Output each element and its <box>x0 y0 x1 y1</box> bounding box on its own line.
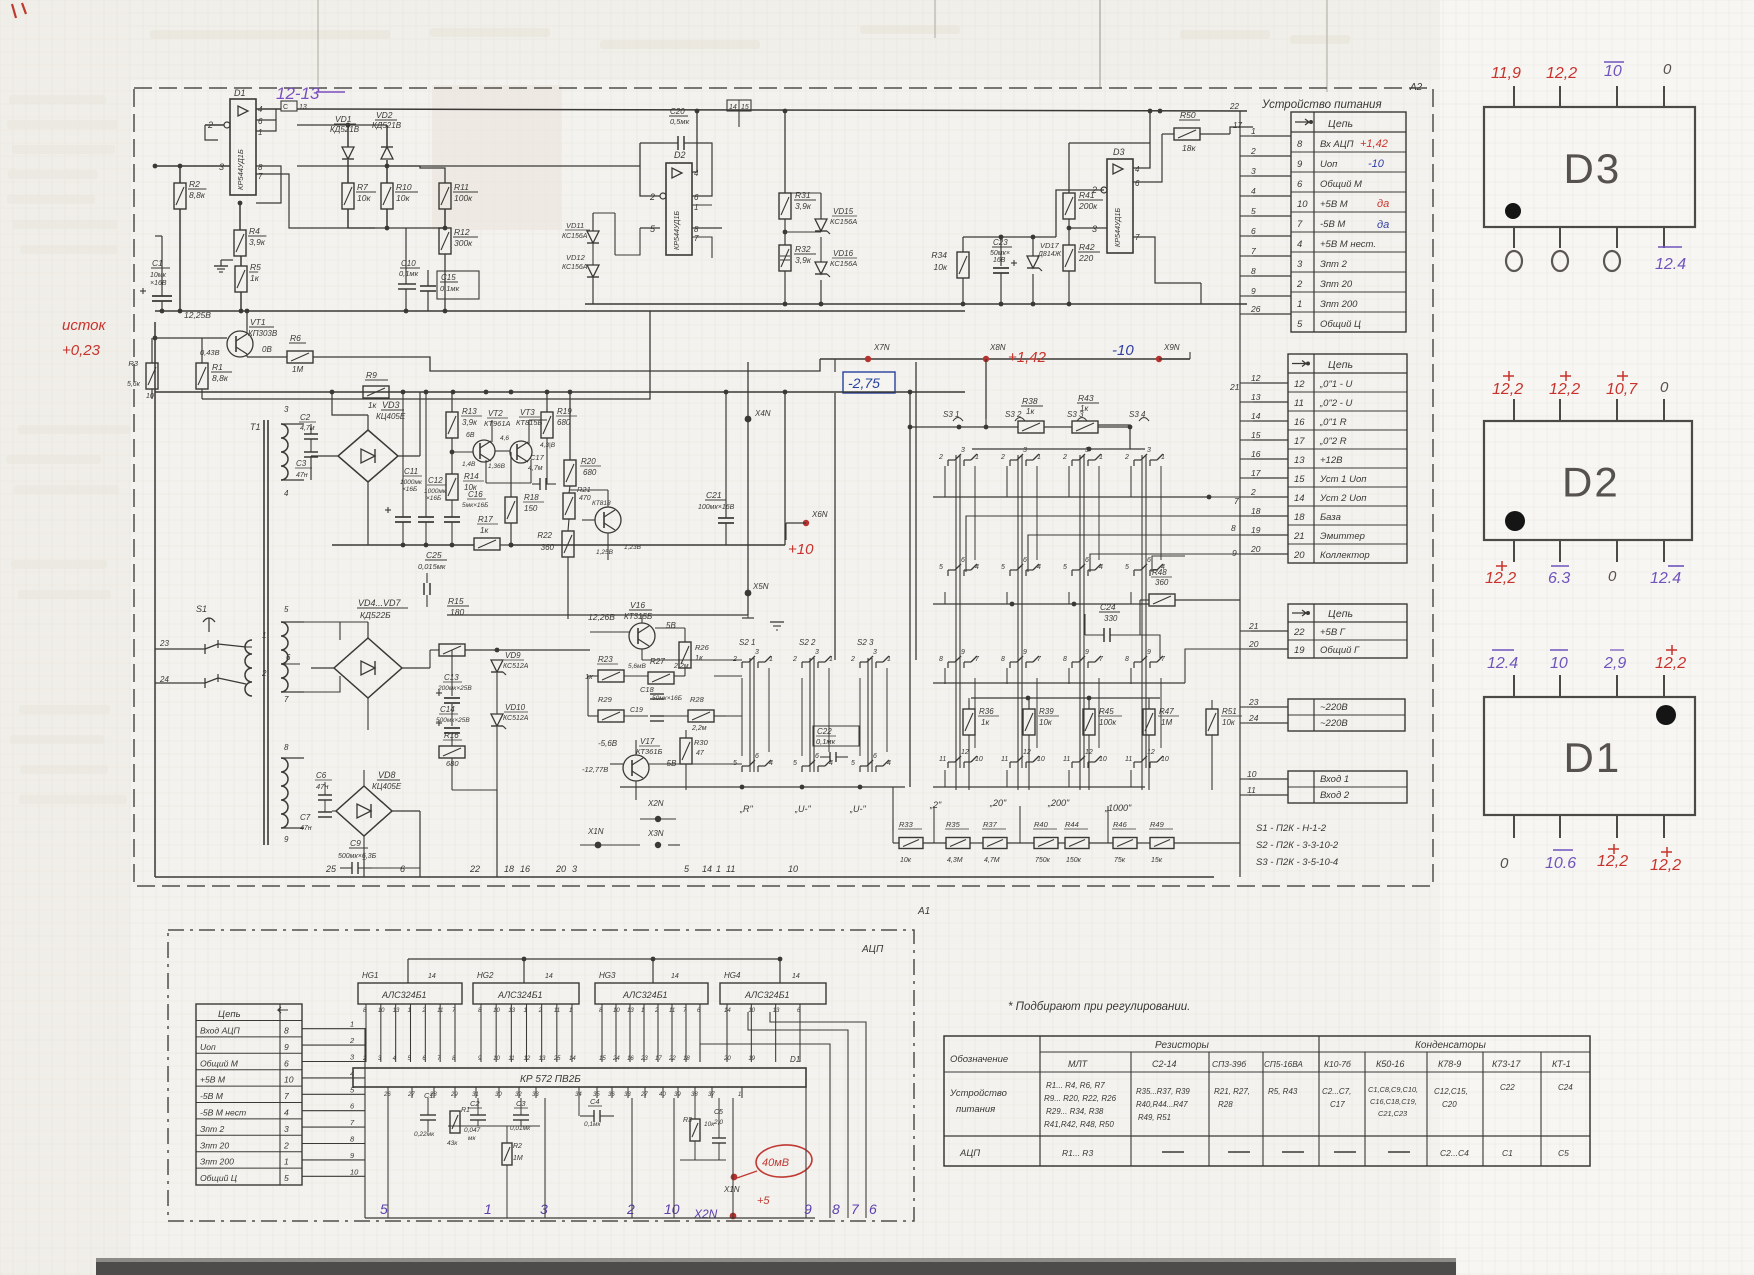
svg-text:HG2: HG2 <box>477 971 494 980</box>
display HG4 ALS324B1 <box>720 983 826 1004</box>
svg-text:VD2: VD2 <box>376 110 393 120</box>
svg-text:R28: R28 <box>1218 1100 1233 1109</box>
component table <box>944 1036 1590 1166</box>
svg-text:2,2м: 2,2м <box>691 725 707 732</box>
svg-text:12-13: 12-13 <box>276 84 320 103</box>
zener VD17 D814 <box>1027 256 1039 268</box>
T1 winding W2 <box>281 622 288 692</box>
resistor R17 1k <box>474 538 500 550</box>
svg-text:Зпт 20: Зпт 20 <box>200 1140 229 1150</box>
svg-text:5,6к: 5,6к <box>127 381 141 388</box>
svg-text:VD10: VD10 <box>505 703 526 712</box>
svg-text:X6N: X6N <box>811 510 828 519</box>
wire stub 18 <box>1253 515 1288 517</box>
svg-text:24: 24 <box>159 675 169 684</box>
svg-text:5: 5 <box>793 760 797 767</box>
svg-text:C19: C19 <box>630 707 643 714</box>
IC box D1 <box>1484 697 1695 815</box>
svg-text:3,9к: 3,9к <box>795 255 812 265</box>
wire S3 row4 bottom bus <box>933 786 1145 788</box>
svg-text:17: 17 <box>1251 468 1261 478</box>
svg-text:3: 3 <box>572 864 577 874</box>
ground near X5N <box>770 621 784 623</box>
svg-text:Устройство: Устройство <box>949 1088 1007 1099</box>
svg-text:C22: C22 <box>817 727 832 736</box>
wire D1 pins 6-1 <box>256 120 276 131</box>
op-amp D1 KR544UD1B <box>230 99 256 195</box>
svg-text:7: 7 <box>694 234 699 243</box>
svg-text:R7: R7 <box>357 182 368 192</box>
svg-text:R35: R35 <box>946 820 961 829</box>
svg-text:23: 23 <box>1248 697 1259 707</box>
svg-text:„U-": „U-" <box>794 804 811 814</box>
svg-text:КР 572 ПВ2Б: КР 572 ПВ2Б <box>520 1074 581 1085</box>
svg-text:C7: C7 <box>300 813 311 822</box>
wire R34 C23 VD17 cluster <box>962 237 964 252</box>
svg-text:3: 3 <box>1297 259 1303 270</box>
svg-text:14: 14 <box>702 864 712 874</box>
svg-text:4,3|В: 4,3|В <box>540 442 556 449</box>
svg-text:КЦ405Е: КЦ405Е <box>372 782 402 791</box>
svg-text:X5N: X5N <box>752 582 769 591</box>
svg-text:C15: C15 <box>441 273 456 282</box>
svg-text:16В: 16В <box>993 257 1006 264</box>
svg-text:-10: -10 <box>1112 342 1134 359</box>
svg-text:11: 11 <box>554 1008 560 1014</box>
rail y392 <box>155 391 965 393</box>
svg-text:8: 8 <box>284 1026 289 1036</box>
resistor R3 5.6k <box>146 363 158 389</box>
resistor R29 1k <box>598 710 624 722</box>
wire diode bottoms <box>347 160 349 183</box>
wire S3.1 contact6 to stub <box>966 516 1240 572</box>
svg-text:5: 5 <box>380 1201 388 1217</box>
svg-text:5: 5 <box>851 760 855 767</box>
resistor R9 1k <box>363 386 389 398</box>
D2 top pins <box>1513 399 1515 421</box>
svg-text:С24: С24 <box>1558 1083 1573 1092</box>
svg-text:47н: 47н <box>300 825 312 832</box>
capacitor C15 0.1mk box <box>437 271 479 299</box>
svg-text:2: 2 <box>1250 146 1256 156</box>
svg-text:R11: R11 <box>454 182 469 192</box>
svg-text:Резисторы: Резисторы <box>1155 1040 1210 1051</box>
svg-text:Зпт 2: Зпт 2 <box>1320 259 1348 270</box>
wire S2 bottom bus <box>620 786 905 788</box>
svg-text:23: 23 <box>640 1056 648 1062</box>
resistor R31 3.9k <box>779 193 791 219</box>
svg-text:-10: -10 <box>1368 158 1385 170</box>
op-amp D2 KR544UD1B <box>666 163 692 255</box>
resistor R51 10k <box>1206 709 1218 735</box>
svg-text:Конденсаторы: Конденсаторы <box>1415 1040 1486 1051</box>
resistor R49 15к <box>1150 838 1174 849</box>
wire bridge2 <box>311 667 334 669</box>
svg-text:7: 7 <box>1297 219 1303 230</box>
svg-text:VD3: VD3 <box>382 400 400 410</box>
svg-text:6: 6 <box>1023 557 1027 564</box>
resistor R39 10k <box>1023 709 1035 735</box>
op-amp D3 KR544UD1B <box>1107 159 1133 253</box>
svg-text:S1: S1 <box>196 604 207 614</box>
svg-text:Зпт 20: Зпт 20 <box>1320 279 1353 290</box>
svg-text:10: 10 <box>613 1008 620 1014</box>
svg-text:R39: R39 <box>1039 707 1054 716</box>
resistor R36 1k <box>963 709 975 735</box>
svg-text:R22: R22 <box>537 531 552 540</box>
svg-text:15: 15 <box>1294 474 1305 485</box>
wire bus above vertical resistors <box>971 697 1160 699</box>
svg-text:10: 10 <box>1099 756 1107 763</box>
svg-text:Д814Ж: Д814Ж <box>1037 251 1062 258</box>
svg-text:R48: R48 <box>1152 568 1167 577</box>
svg-text:12,2: 12,2 <box>1655 655 1686 672</box>
svg-text:R49: R49 <box>1150 820 1165 829</box>
svg-text:4: 4 <box>769 760 773 767</box>
svg-text:D2: D2 <box>1562 459 1620 506</box>
svg-text:R28: R28 <box>690 695 705 704</box>
svg-text:„20": „20" <box>989 798 1007 808</box>
svg-text:8: 8 <box>1063 656 1067 663</box>
rail y545 <box>332 544 474 546</box>
svg-text:680: 680 <box>583 468 597 477</box>
svg-text:3: 3 <box>1147 447 1151 454</box>
wire C9 <box>372 867 420 869</box>
svg-text:1: 1 <box>408 1008 411 1014</box>
svg-text:47: 47 <box>696 750 705 757</box>
A1 stub bus <box>364 1028 366 1218</box>
svg-text:6: 6 <box>400 864 405 874</box>
wire node to D1 pin3 <box>155 165 186 167</box>
svg-text:0,5мк: 0,5мк <box>670 117 690 126</box>
bottom rail <box>155 876 1214 878</box>
wire S3 row1 bottom bus <box>933 496 1209 498</box>
svg-text:9: 9 <box>1232 548 1237 558</box>
svg-text:12,2: 12,2 <box>1546 65 1577 82</box>
wire D3 pin6 <box>1133 134 1162 182</box>
svg-text:Цепь: Цепь <box>1328 608 1353 620</box>
svg-text:8: 8 <box>694 225 699 234</box>
svg-text:9: 9 <box>1023 649 1027 656</box>
resistor R4 3.9k <box>234 230 246 256</box>
svg-text:200мк×25В: 200мк×25В <box>437 685 472 692</box>
verticals to bottom rail <box>363 852 365 877</box>
node X4N <box>745 416 752 423</box>
svg-text:КР544УД1Б: КР544УД1Б <box>672 211 681 250</box>
wire C11 <box>402 392 404 517</box>
svg-text:VD17: VD17 <box>1040 241 1060 250</box>
svg-text:19: 19 <box>1251 525 1261 535</box>
svg-text:12.4: 12.4 <box>1650 570 1681 587</box>
svg-text:C10: C10 <box>401 259 416 268</box>
svg-text:VT1: VT1 <box>250 317 266 327</box>
resistor R2 1M A1 <box>502 1143 512 1165</box>
svg-text:„0"1 R: „0"1 R <box>1319 417 1347 428</box>
svg-text:1к: 1к <box>1026 407 1035 416</box>
svg-text:8: 8 <box>1001 656 1005 663</box>
svg-text:18к: 18к <box>1182 143 1196 153</box>
svg-text:22: 22 <box>668 1056 676 1062</box>
svg-text:R4: R4 <box>249 226 260 236</box>
svg-text:3: 3 <box>961 447 965 454</box>
A1 vertical wires to rail <box>387 1098 389 1218</box>
diode VD12 KS156A <box>587 265 599 277</box>
svg-text:11: 11 <box>1247 785 1256 795</box>
svg-text:16: 16 <box>1294 417 1305 428</box>
wire D3 pin3 <box>1069 227 1107 229</box>
resistor R34 10k <box>957 252 969 278</box>
svg-text:Цепь: Цепь <box>1328 118 1353 130</box>
svg-text:1к: 1к <box>1080 404 1089 413</box>
svg-text:С2-14: С2-14 <box>1152 1059 1177 1069</box>
svg-text:4,6: 4,6 <box>500 435 509 442</box>
svg-text:„2": „2" <box>929 800 942 810</box>
wire stub 21 <box>1251 630 1288 632</box>
svg-text:26: 26 <box>1250 304 1261 314</box>
wire S3 row2 bottom bus <box>933 603 1149 605</box>
wire stub 6 <box>1253 235 1291 237</box>
A1 table stubs <box>302 1028 365 1030</box>
resistor R40 750к <box>1034 838 1058 849</box>
D2 bottom pins <box>1513 540 1515 562</box>
svg-text:7: 7 <box>258 172 263 181</box>
wire VD3 <box>311 455 338 457</box>
svg-text:+5В М: +5В М <box>1320 199 1348 210</box>
svg-text:2: 2 <box>1296 279 1303 290</box>
blue box -2.75 <box>843 372 895 393</box>
wire R6 feedback <box>247 356 287 358</box>
connector table 2 <box>1288 354 1407 563</box>
wire stub 1 <box>1253 135 1291 137</box>
svg-text:10: 10 <box>146 393 154 400</box>
svg-text:0: 0 <box>1660 379 1669 396</box>
wire VT2 VT3 <box>452 451 473 453</box>
wire VD11-12 <box>592 213 594 231</box>
svg-text:R40,R44...R47: R40,R44...R47 <box>1136 1100 1188 1109</box>
resistor R50 18k <box>1174 128 1200 140</box>
svg-text:2,2м: 2,2м <box>673 663 689 670</box>
svg-text:КТ361Б: КТ361Б <box>636 747 663 756</box>
svg-text:0В: 0В <box>262 345 272 354</box>
wire mid-low cluster <box>451 650 453 696</box>
svg-text:24: 24 <box>612 1056 620 1062</box>
wire R38 R43 <box>985 419 987 427</box>
mid rail y615 <box>447 614 590 616</box>
svg-text:38: 38 <box>691 1092 698 1098</box>
svg-text:D1: D1 <box>790 1055 800 1064</box>
svg-text:R41,R42, R48, R50: R41,R42, R48, R50 <box>1044 1120 1114 1129</box>
transistor V17 KT361B <box>623 755 649 781</box>
svg-text:6В: 6В <box>466 432 475 439</box>
svg-text:11: 11 <box>1001 756 1008 763</box>
svg-text:21: 21 <box>1248 621 1259 631</box>
resistor R43 1k <box>1072 421 1098 433</box>
svg-text:11: 11 <box>1125 756 1132 763</box>
svg-text:9: 9 <box>284 835 289 844</box>
svg-text:2: 2 <box>654 1008 659 1014</box>
svg-text:9: 9 <box>284 1042 289 1052</box>
svg-text:6: 6 <box>961 557 965 564</box>
svg-text:База: База <box>1320 512 1341 523</box>
svg-text:КТ961А: КТ961А <box>484 419 511 428</box>
svg-text:0,047: 0,047 <box>464 1127 481 1134</box>
svg-text:„0"2 - U: „0"2 - U <box>1319 398 1353 409</box>
svg-text:3,9к: 3,9к <box>462 418 478 427</box>
svg-text:Устройство питания: Устройство питания <box>1261 99 1382 111</box>
svg-text:питания: питания <box>956 1104 995 1115</box>
svg-text:12.4: 12.4 <box>1487 655 1518 672</box>
svg-text:R13: R13 <box>462 407 477 416</box>
svg-text:S2 - П2К - 3-3-10-2: S2 - П2К - 3-3-10-2 <box>1256 840 1339 851</box>
svg-text:КД522Б: КД522Б <box>360 610 391 620</box>
svg-text:С16,С18,С19,: С16,С18,С19, <box>1370 1097 1417 1106</box>
wire D3 pin4 <box>1133 111 1150 168</box>
svg-text:V17: V17 <box>640 737 655 746</box>
svg-text:1М: 1М <box>292 365 303 374</box>
svg-text:Обозначение: Обозначение <box>950 1054 1008 1065</box>
svg-text:330: 330 <box>1104 614 1118 623</box>
inner left wire <box>154 322 156 877</box>
resistor R20 680 <box>564 460 576 486</box>
svg-text:C6: C6 <box>316 771 327 780</box>
wire V16 emitter bus <box>642 659 742 661</box>
resistor R15 180 <box>439 644 465 656</box>
svg-text:14: 14 <box>671 973 679 980</box>
svg-text:43к: 43к <box>447 1140 458 1147</box>
wire C21 <box>725 392 727 518</box>
svg-text:С2...С7,: С2...С7, <box>1322 1087 1351 1096</box>
svg-text:5: 5 <box>939 564 943 571</box>
svg-text:Эмиттер: Эмиттер <box>1320 531 1365 542</box>
svg-text:R6: R6 <box>290 333 301 343</box>
svg-text:6: 6 <box>286 653 291 662</box>
resistor R21 470 <box>563 493 575 519</box>
svg-text:7: 7 <box>851 1201 860 1217</box>
svg-text:1: 1 <box>738 1092 741 1098</box>
svg-text:С1,С8,С9,С10,: С1,С8,С9,С10, <box>1368 1085 1418 1094</box>
transistor V16 KT315B <box>629 623 655 649</box>
bottom scanner dark band <box>96 1261 1456 1275</box>
wire stub 19 <box>1253 534 1288 536</box>
svg-text:7: 7 <box>284 695 289 704</box>
svg-text:АЦП: АЦП <box>959 1148 980 1159</box>
wire R1 R3 <box>151 338 153 363</box>
svg-text:11: 11 <box>669 1008 675 1014</box>
switch S2 actuator lines <box>749 658 751 772</box>
svg-text:8: 8 <box>258 163 263 172</box>
svg-text:Уст 2 Uоп: Уст 2 Uоп <box>1319 493 1367 504</box>
D3 bottom zeros <box>1506 251 1522 271</box>
svg-text:10: 10 <box>1037 756 1045 763</box>
svg-text:1,4В: 1,4В <box>462 461 476 468</box>
svg-text:0: 0 <box>1663 61 1672 78</box>
svg-text:4: 4 <box>1135 165 1140 174</box>
wire stub 2 <box>1253 496 1288 498</box>
svg-text:+1,42: +1,42 <box>1360 138 1388 150</box>
svg-text:4: 4 <box>284 489 289 498</box>
svg-text:13: 13 <box>393 1008 400 1014</box>
svg-text:10: 10 <box>1550 655 1568 672</box>
svg-text:10к: 10к <box>464 483 478 492</box>
svg-text:2: 2 <box>1000 454 1005 461</box>
display HG3 ALS324B1 <box>595 983 708 1004</box>
svg-text:R27: R27 <box>650 657 665 666</box>
wire X8N down <box>985 359 987 419</box>
resistor R18 150 <box>505 497 517 523</box>
wire diode tops <box>347 125 349 147</box>
svg-text:Общий М: Общий М <box>1320 179 1362 190</box>
svg-text:R23: R23 <box>598 655 613 664</box>
top rail from D1 pin4 <box>256 108 281 110</box>
svg-text:2: 2 <box>349 1036 355 1045</box>
svg-text:14: 14 <box>724 1008 731 1014</box>
svg-text:6: 6 <box>1251 226 1256 236</box>
wire stub 15 <box>1253 439 1288 441</box>
svg-text:R15: R15 <box>448 596 464 606</box>
svg-text:18: 18 <box>683 1056 690 1062</box>
T1 primary winding <box>245 640 252 696</box>
svg-text:R29... R34, R38: R29... R34, R38 <box>1046 1107 1104 1116</box>
svg-text:Зпт 2: Зпт 2 <box>200 1124 225 1134</box>
svg-text:10: 10 <box>350 1167 359 1176</box>
svg-text:R17: R17 <box>478 515 493 524</box>
resistor R7 10k <box>342 183 354 209</box>
svg-text:2: 2 <box>626 1201 635 1217</box>
svg-text:10: 10 <box>975 756 983 763</box>
wire stub 26 <box>1253 313 1291 315</box>
svg-text:К73-17: К73-17 <box>1492 1059 1521 1069</box>
svg-text:14: 14 <box>1251 411 1261 421</box>
svg-text:39: 39 <box>674 1092 681 1098</box>
node X1N A1 <box>731 1174 738 1181</box>
node X5N <box>745 590 752 597</box>
svg-text:1: 1 <box>1161 454 1165 461</box>
svg-text:29: 29 <box>450 1092 458 1098</box>
wire stub 16 <box>1253 458 1288 460</box>
svg-text:500мк×6,3Б: 500мк×6,3Б <box>338 853 377 860</box>
svg-text:Общий М: Общий М <box>200 1058 239 1068</box>
svg-text:4: 4 <box>284 1108 289 1118</box>
IC box D3 <box>1484 107 1695 227</box>
wire S3 verticals to bottom <box>955 768 957 790</box>
svg-text:Зпт 200: Зпт 200 <box>200 1157 234 1167</box>
svg-text:1к: 1к <box>368 401 377 410</box>
svg-text:+10: +10 <box>788 541 814 558</box>
wire C10 <box>405 228 407 284</box>
diode VD1 KD521V <box>342 147 354 159</box>
svg-text:КС156А: КС156А <box>562 264 588 271</box>
display HG1 ALS324B1 <box>358 983 462 1004</box>
svg-text:5: 5 <box>1063 564 1067 571</box>
svg-text:+5В М: +5В М <box>200 1075 226 1085</box>
svg-text:1,36В: 1,36В <box>488 463 506 470</box>
wire rail 545 right <box>511 544 785 546</box>
svg-text:A2: A2 <box>1409 82 1423 93</box>
svg-text:R30: R30 <box>694 738 709 747</box>
svg-text:АЛС324Б1: АЛС324Б1 <box>622 990 668 1000</box>
svg-text:14: 14 <box>569 1056 576 1062</box>
svg-text:10к: 10к <box>1039 718 1053 727</box>
node rail X7N X8N X9N <box>820 358 1190 360</box>
svg-text:R3: R3 <box>128 359 138 368</box>
svg-text:8: 8 <box>1231 523 1236 533</box>
svg-text:С2...С4: С2...С4 <box>1440 1148 1469 1158</box>
svg-text:30: 30 <box>495 1092 502 1098</box>
svg-text:R44: R44 <box>1065 820 1079 829</box>
svg-text:АЛС324Б1: АЛС324Б1 <box>497 990 543 1000</box>
resistor R19 680 <box>541 412 553 438</box>
svg-text:16: 16 <box>627 1056 634 1062</box>
